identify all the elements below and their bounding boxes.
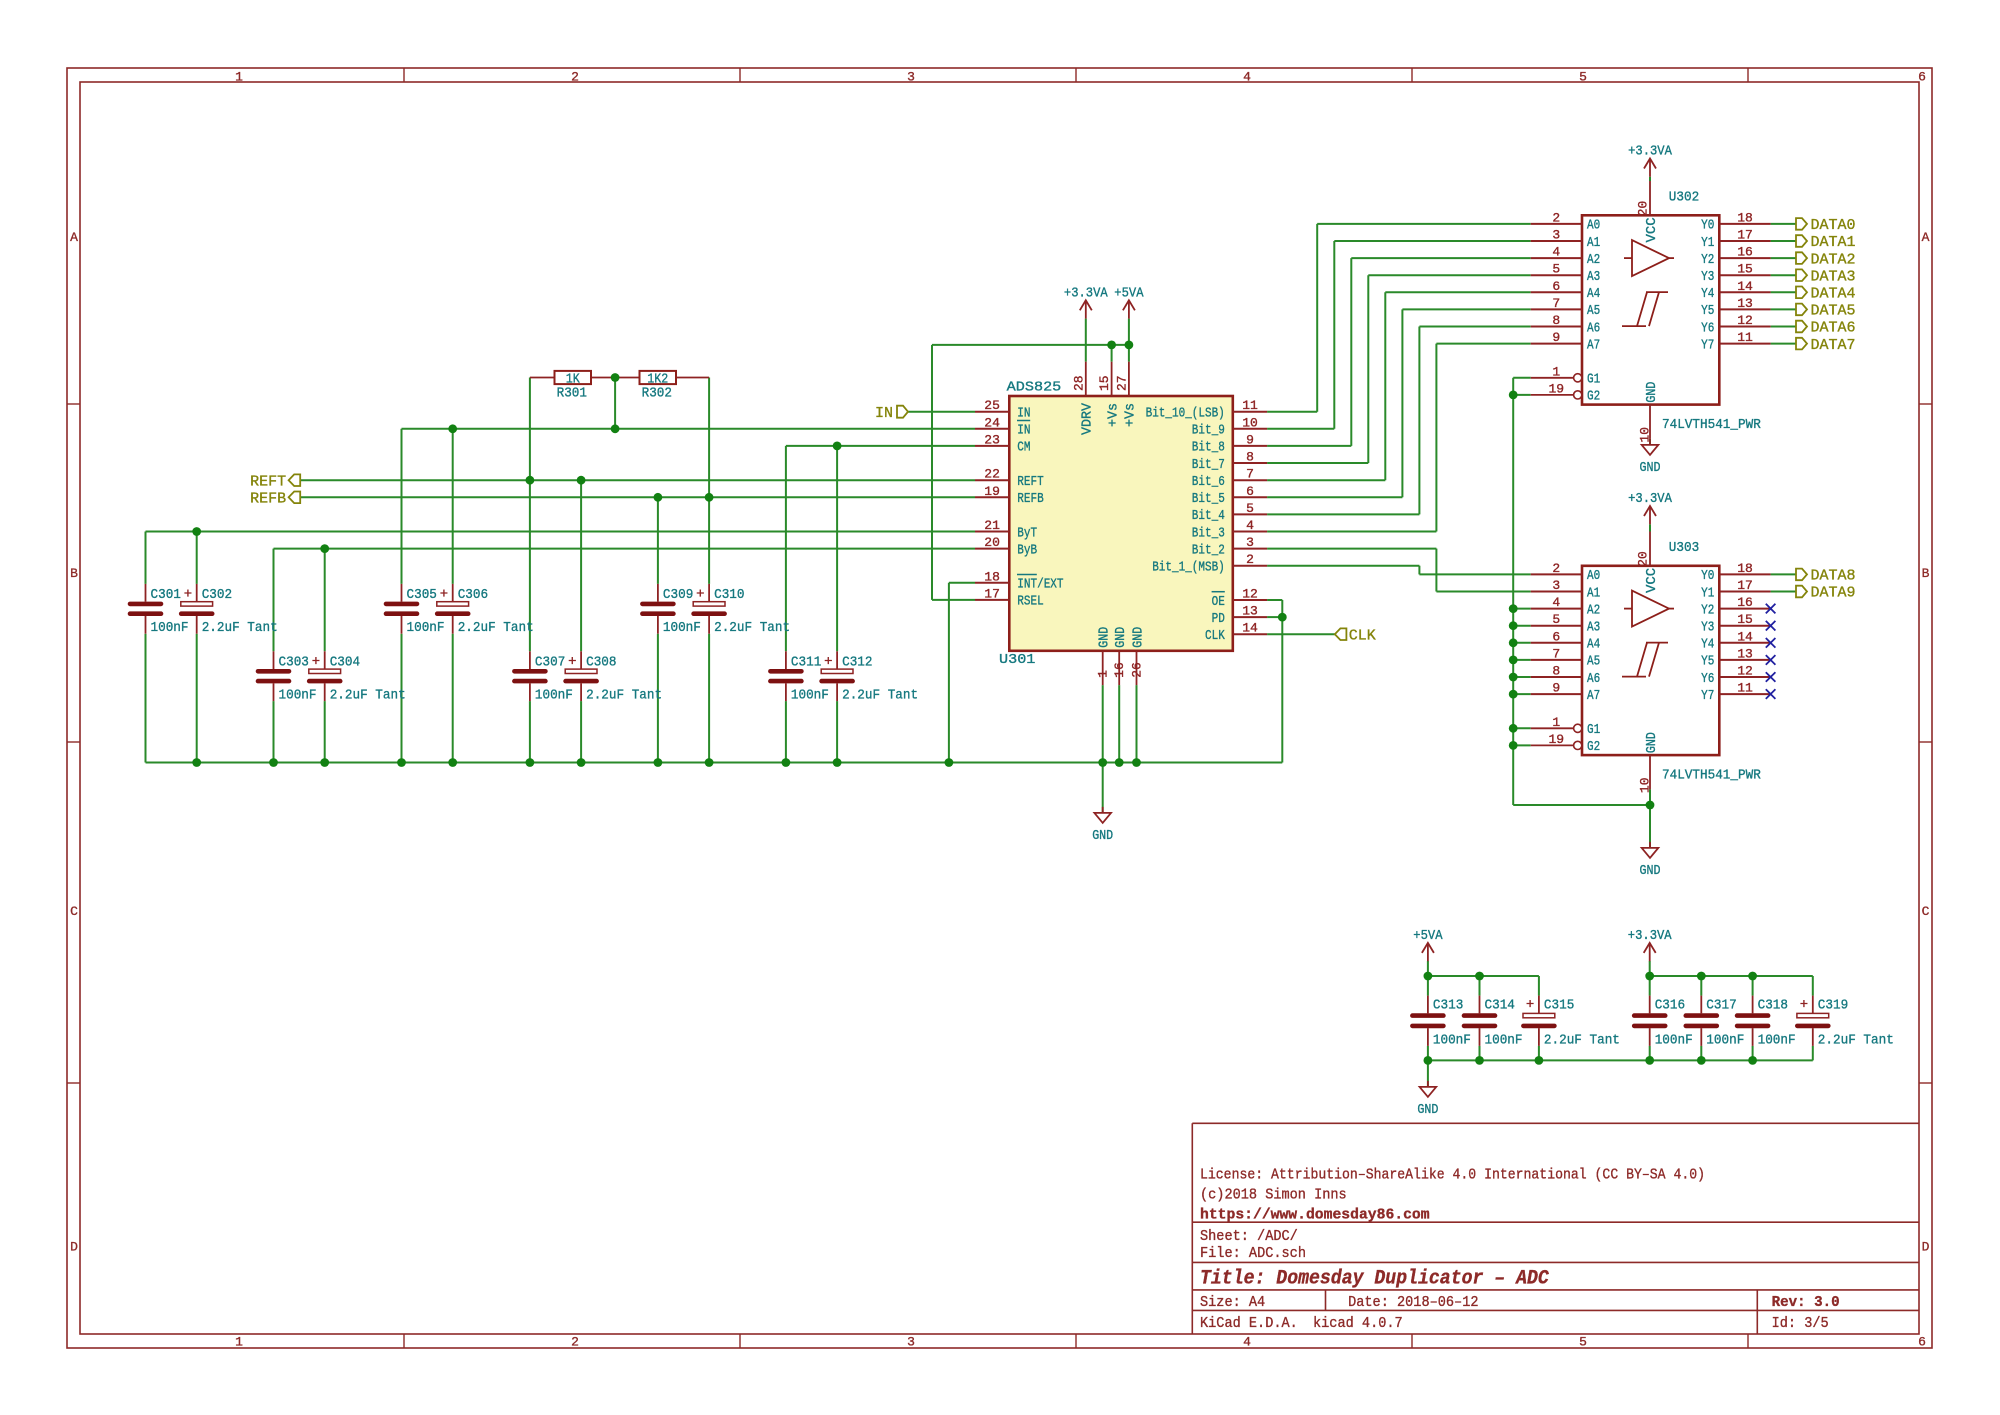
svg-text:GND: GND bbox=[1113, 627, 1129, 648]
svg-text:Y1: Y1 bbox=[1701, 235, 1714, 251]
svg-text:R301: R301 bbox=[557, 385, 587, 401]
svg-text:D: D bbox=[1922, 1240, 1930, 1255]
svg-text:12: 12 bbox=[1242, 587, 1258, 602]
svg-text:C311: C311 bbox=[791, 655, 821, 671]
svg-text:17: 17 bbox=[1737, 578, 1753, 593]
svg-text:18: 18 bbox=[1737, 210, 1753, 225]
svg-text:3: 3 bbox=[907, 1335, 915, 1350]
svg-text:A6: A6 bbox=[1587, 671, 1600, 687]
svg-text:3: 3 bbox=[907, 70, 915, 85]
svg-text:C305: C305 bbox=[407, 587, 437, 603]
svg-text:7: 7 bbox=[1552, 646, 1560, 661]
svg-text:2.2uF Tant: 2.2uF Tant bbox=[1544, 1033, 1620, 1049]
svg-text:ByT: ByT bbox=[1017, 525, 1037, 541]
svg-text:C301: C301 bbox=[151, 587, 181, 603]
svg-text:Date: 2018–06–12: Date: 2018–06–12 bbox=[1348, 1294, 1478, 1311]
svg-text:Sheet: /ADC/: Sheet: /ADC/ bbox=[1200, 1228, 1298, 1245]
svg-text:28: 28 bbox=[1071, 375, 1086, 391]
svg-text:+Vs: +Vs bbox=[1123, 403, 1139, 427]
svg-text:6: 6 bbox=[1552, 279, 1560, 294]
svg-text:GND: GND bbox=[1092, 828, 1113, 844]
svg-text:10: 10 bbox=[1242, 415, 1258, 430]
svg-text:A7: A7 bbox=[1587, 688, 1600, 704]
svg-text:4: 4 bbox=[1243, 1335, 1251, 1350]
svg-text:6: 6 bbox=[1918, 1335, 1926, 1350]
svg-text:1: 1 bbox=[235, 1335, 243, 1350]
svg-text:Y1: Y1 bbox=[1701, 585, 1714, 601]
svg-text:C312: C312 bbox=[842, 655, 872, 671]
svg-text:Bit_7: Bit_7 bbox=[1192, 457, 1225, 473]
svg-text:Y6: Y6 bbox=[1701, 671, 1714, 687]
svg-text:+: + bbox=[1526, 997, 1534, 1013]
svg-text:C319: C319 bbox=[1818, 998, 1848, 1014]
svg-text:C309: C309 bbox=[663, 587, 693, 603]
svg-text:REFT: REFT bbox=[1017, 474, 1043, 490]
svg-text:100nF: 100nF bbox=[279, 688, 317, 704]
svg-text:A1: A1 bbox=[1587, 585, 1600, 601]
svg-text:100nF: 100nF bbox=[1655, 1033, 1693, 1049]
svg-text:14: 14 bbox=[1737, 279, 1753, 294]
svg-text:+3.3VA: +3.3VA bbox=[1628, 144, 1672, 160]
svg-text:100nF: 100nF bbox=[1433, 1033, 1471, 1049]
svg-text:4: 4 bbox=[1552, 595, 1560, 610]
svg-text:C308: C308 bbox=[586, 655, 616, 671]
svg-text:4: 4 bbox=[1243, 70, 1251, 85]
svg-text:5: 5 bbox=[1246, 501, 1254, 516]
svg-text:REFB: REFB bbox=[1017, 491, 1043, 507]
svg-text:100nF: 100nF bbox=[1485, 1033, 1523, 1049]
svg-text:DATA8: DATA8 bbox=[1811, 568, 1856, 585]
svg-text:Bit_3: Bit_3 bbox=[1192, 525, 1225, 541]
svg-text:Y3: Y3 bbox=[1701, 269, 1714, 285]
svg-text:3: 3 bbox=[1552, 578, 1560, 593]
svg-text:A4: A4 bbox=[1587, 286, 1600, 302]
svg-text:+: + bbox=[1800, 997, 1808, 1013]
svg-text:5: 5 bbox=[1552, 262, 1560, 277]
svg-text:A6: A6 bbox=[1587, 320, 1600, 336]
svg-text:INT/EXT: INT/EXT bbox=[1017, 577, 1063, 593]
svg-text:Y6: Y6 bbox=[1701, 320, 1714, 336]
svg-text:11: 11 bbox=[1737, 330, 1753, 345]
svg-text:2.2uF Tant: 2.2uF Tant bbox=[330, 688, 406, 704]
svg-text:DATA3: DATA3 bbox=[1811, 268, 1856, 285]
svg-text:G2: G2 bbox=[1587, 739, 1600, 755]
svg-text:GND: GND bbox=[1644, 382, 1660, 403]
svg-text:VDRV: VDRV bbox=[1080, 402, 1096, 435]
svg-text:U302: U302 bbox=[1669, 190, 1699, 206]
svg-text:2.2uF Tant: 2.2uF Tant bbox=[842, 688, 918, 704]
svg-text:100nF: 100nF bbox=[663, 620, 701, 636]
svg-text:R302: R302 bbox=[642, 385, 672, 401]
svg-text:B: B bbox=[1922, 566, 1930, 581]
svg-text:U303: U303 bbox=[1669, 540, 1699, 556]
svg-text:A2: A2 bbox=[1587, 252, 1600, 268]
svg-text:A3: A3 bbox=[1587, 269, 1600, 285]
svg-text:Bit_4: Bit_4 bbox=[1192, 508, 1225, 524]
svg-text:A0: A0 bbox=[1587, 218, 1600, 234]
svg-text:+: + bbox=[824, 654, 832, 670]
svg-text:14: 14 bbox=[1242, 621, 1258, 636]
svg-text:25: 25 bbox=[984, 398, 1000, 413]
svg-text:17: 17 bbox=[1737, 228, 1753, 243]
svg-text:Bit_9: Bit_9 bbox=[1192, 423, 1225, 439]
svg-text:DATA1: DATA1 bbox=[1811, 234, 1856, 251]
svg-text:C: C bbox=[70, 904, 78, 919]
svg-text:100nF: 100nF bbox=[407, 620, 445, 636]
svg-text:4: 4 bbox=[1552, 245, 1560, 260]
svg-text:https://www.domesday86.com: https://www.domesday86.com bbox=[1200, 1206, 1430, 1223]
svg-text:13: 13 bbox=[1737, 296, 1753, 311]
svg-text:20: 20 bbox=[1636, 551, 1651, 567]
svg-text:+3.3VA: +3.3VA bbox=[1628, 491, 1672, 507]
svg-text:Bit_10_(LSB): Bit_10_(LSB) bbox=[1146, 406, 1225, 422]
svg-text:27: 27 bbox=[1114, 375, 1129, 391]
svg-text:2: 2 bbox=[1246, 552, 1254, 567]
svg-text:12: 12 bbox=[1737, 313, 1753, 328]
svg-text:DATA5: DATA5 bbox=[1811, 303, 1856, 320]
svg-text:Y2: Y2 bbox=[1701, 602, 1714, 618]
svg-text:Y3: Y3 bbox=[1701, 620, 1714, 636]
svg-text:2.2uF Tant: 2.2uF Tant bbox=[202, 620, 278, 636]
svg-text:+5VA: +5VA bbox=[1114, 286, 1144, 302]
svg-text:GND: GND bbox=[1640, 460, 1661, 476]
svg-text:DATA9: DATA9 bbox=[1811, 585, 1856, 602]
svg-text:C318: C318 bbox=[1758, 998, 1788, 1014]
svg-text:A7: A7 bbox=[1587, 337, 1600, 353]
svg-text:16: 16 bbox=[1112, 662, 1127, 678]
svg-text:C307: C307 bbox=[535, 655, 565, 671]
svg-text:A5: A5 bbox=[1587, 654, 1600, 670]
svg-text:kicad 4.0.7: kicad 4.0.7 bbox=[1313, 1315, 1403, 1332]
svg-text:G2: G2 bbox=[1587, 389, 1600, 405]
svg-text:5: 5 bbox=[1552, 612, 1560, 627]
svg-text:100nF: 100nF bbox=[791, 688, 829, 704]
svg-text:100nF: 100nF bbox=[1706, 1033, 1744, 1049]
svg-text:VCC: VCC bbox=[1644, 568, 1660, 593]
svg-text:GND: GND bbox=[1417, 1102, 1438, 1118]
svg-text:A: A bbox=[1922, 230, 1930, 245]
svg-text:KiCad E.D.A.: KiCad E.D.A. bbox=[1200, 1315, 1298, 1332]
svg-text:Y4: Y4 bbox=[1701, 637, 1714, 653]
svg-text:A1: A1 bbox=[1587, 235, 1600, 251]
svg-text:GND: GND bbox=[1644, 732, 1660, 753]
svg-text:C310: C310 bbox=[714, 587, 744, 603]
svg-text:U301: U301 bbox=[999, 652, 1035, 668]
svg-text:DATA6: DATA6 bbox=[1811, 320, 1856, 337]
svg-text:2.2uF Tant: 2.2uF Tant bbox=[714, 620, 790, 636]
svg-text:RSEL: RSEL bbox=[1017, 594, 1043, 610]
svg-text:5: 5 bbox=[1579, 1335, 1587, 1350]
svg-text:Y0: Y0 bbox=[1701, 218, 1714, 234]
svg-text:C317: C317 bbox=[1706, 998, 1736, 1014]
svg-text:3: 3 bbox=[1246, 535, 1254, 550]
svg-text:100nF: 100nF bbox=[535, 688, 573, 704]
svg-text:Bit_8: Bit_8 bbox=[1192, 440, 1225, 456]
svg-text:100nF: 100nF bbox=[1758, 1033, 1796, 1049]
svg-text:Y4: Y4 bbox=[1701, 286, 1714, 302]
svg-text:+3.3VA: +3.3VA bbox=[1064, 286, 1108, 302]
svg-text:C315: C315 bbox=[1544, 998, 1574, 1014]
svg-text:DATA0: DATA0 bbox=[1811, 217, 1856, 234]
svg-text:7: 7 bbox=[1552, 296, 1560, 311]
svg-text:4: 4 bbox=[1246, 518, 1254, 533]
svg-text:G1: G1 bbox=[1587, 722, 1600, 738]
svg-text:+Vs: +Vs bbox=[1105, 403, 1121, 427]
svg-text:Bit_6: Bit_6 bbox=[1192, 474, 1225, 490]
svg-text:9: 9 bbox=[1552, 330, 1560, 345]
svg-text:15: 15 bbox=[1737, 262, 1753, 277]
svg-text:6: 6 bbox=[1552, 629, 1560, 644]
svg-text:24: 24 bbox=[984, 415, 1000, 430]
svg-text:IN: IN bbox=[1017, 423, 1030, 439]
svg-text:19: 19 bbox=[1548, 732, 1564, 747]
svg-text:74LVTH541_PWR: 74LVTH541_PWR bbox=[1662, 768, 1761, 784]
svg-text:3: 3 bbox=[1552, 228, 1560, 243]
svg-text:+: + bbox=[696, 587, 704, 603]
svg-text:CLK: CLK bbox=[1205, 628, 1225, 644]
svg-text:9: 9 bbox=[1246, 432, 1254, 447]
svg-text:8: 8 bbox=[1552, 664, 1560, 679]
svg-text:Bit_1_(MSB): Bit_1_(MSB) bbox=[1152, 560, 1225, 576]
svg-text:8: 8 bbox=[1246, 450, 1254, 465]
svg-text:(c)2018 Simon Inns: (c)2018 Simon Inns bbox=[1200, 1187, 1347, 1204]
svg-text:13: 13 bbox=[1737, 646, 1753, 661]
svg-text:B: B bbox=[70, 566, 78, 581]
svg-text:License: Attribution–ShareAlik: License: Attribution–ShareAlike 4.0 Inte… bbox=[1200, 1166, 1705, 1183]
svg-text:6: 6 bbox=[1918, 70, 1926, 85]
svg-text:5: 5 bbox=[1579, 70, 1587, 85]
svg-text:74LVTH541_PWR: 74LVTH541_PWR bbox=[1662, 417, 1761, 433]
svg-text:A: A bbox=[70, 230, 78, 245]
svg-text:Y7: Y7 bbox=[1701, 337, 1714, 353]
svg-text:2.2uF Tant: 2.2uF Tant bbox=[458, 620, 534, 636]
svg-text:Bit_5: Bit_5 bbox=[1192, 491, 1225, 507]
svg-text:19: 19 bbox=[1548, 381, 1564, 396]
svg-text:Bit_2: Bit_2 bbox=[1192, 542, 1225, 558]
svg-text:PD: PD bbox=[1212, 611, 1225, 627]
svg-text:+: + bbox=[568, 654, 576, 670]
svg-text:1: 1 bbox=[1552, 715, 1560, 730]
svg-text:15: 15 bbox=[1737, 612, 1753, 627]
svg-text:Y5: Y5 bbox=[1701, 654, 1714, 670]
svg-text:6: 6 bbox=[1246, 484, 1254, 499]
svg-text:16: 16 bbox=[1737, 245, 1753, 260]
svg-text:Rev: 3.0: Rev: 3.0 bbox=[1772, 1294, 1840, 1311]
svg-text:10: 10 bbox=[1638, 777, 1653, 793]
svg-text:1: 1 bbox=[1552, 364, 1560, 379]
svg-text:13: 13 bbox=[1242, 604, 1258, 619]
svg-text:2: 2 bbox=[1552, 210, 1560, 225]
svg-text:DATA7: DATA7 bbox=[1811, 337, 1856, 354]
svg-text:CM: CM bbox=[1017, 440, 1030, 456]
svg-text:20: 20 bbox=[984, 535, 1000, 550]
svg-text:D: D bbox=[70, 1240, 78, 1255]
svg-text:Id: 3/5: Id: 3/5 bbox=[1772, 1315, 1829, 1332]
svg-text:100nF: 100nF bbox=[151, 620, 189, 636]
svg-text:9: 9 bbox=[1552, 681, 1560, 696]
svg-text:C314: C314 bbox=[1485, 998, 1515, 1014]
svg-text:Y5: Y5 bbox=[1701, 303, 1714, 319]
svg-text:7: 7 bbox=[1246, 467, 1254, 482]
svg-text:2: 2 bbox=[1552, 561, 1560, 576]
svg-text:A3: A3 bbox=[1587, 620, 1600, 636]
svg-text:C313: C313 bbox=[1433, 998, 1463, 1014]
svg-text:C316: C316 bbox=[1655, 998, 1685, 1014]
svg-text:16: 16 bbox=[1737, 595, 1753, 610]
svg-text:14: 14 bbox=[1737, 629, 1753, 644]
svg-text:+: + bbox=[184, 587, 192, 603]
svg-text:A4: A4 bbox=[1587, 637, 1600, 653]
svg-text:ByB: ByB bbox=[1017, 542, 1037, 558]
svg-text:1: 1 bbox=[235, 70, 243, 85]
svg-text:C303: C303 bbox=[279, 655, 309, 671]
svg-text:+: + bbox=[312, 654, 320, 670]
svg-text:20: 20 bbox=[1636, 201, 1651, 217]
svg-text:2.2uF Tant: 2.2uF Tant bbox=[586, 688, 662, 704]
svg-text:+5VA: +5VA bbox=[1413, 928, 1443, 944]
svg-text:GND: GND bbox=[1097, 627, 1113, 648]
svg-text:REFB: REFB bbox=[250, 491, 286, 508]
svg-text:17: 17 bbox=[984, 586, 1000, 601]
svg-text:C304: C304 bbox=[330, 655, 360, 671]
svg-text:Size: A4: Size: A4 bbox=[1200, 1294, 1265, 1311]
svg-text:A0: A0 bbox=[1587, 568, 1600, 584]
svg-text:+3.3VA: +3.3VA bbox=[1628, 928, 1672, 944]
svg-text:VCC: VCC bbox=[1644, 217, 1660, 242]
svg-text:22: 22 bbox=[984, 467, 1000, 482]
svg-text:ADS825: ADS825 bbox=[1007, 380, 1062, 396]
svg-text:C306: C306 bbox=[458, 587, 488, 603]
svg-text:CLK: CLK bbox=[1349, 627, 1376, 644]
svg-text:A5: A5 bbox=[1587, 303, 1600, 319]
svg-text:26: 26 bbox=[1130, 662, 1145, 678]
svg-text:2.2uF Tant: 2.2uF Tant bbox=[1818, 1033, 1894, 1049]
svg-text:15: 15 bbox=[1097, 375, 1112, 391]
svg-text:File: ADC.sch: File: ADC.sch bbox=[1200, 1245, 1306, 1262]
svg-text:8: 8 bbox=[1552, 313, 1560, 328]
svg-text:DATA4: DATA4 bbox=[1811, 286, 1856, 303]
svg-text:11: 11 bbox=[1242, 398, 1258, 413]
svg-text:11: 11 bbox=[1737, 681, 1753, 696]
svg-text:18: 18 bbox=[1737, 561, 1753, 576]
svg-text:21: 21 bbox=[984, 518, 1000, 533]
svg-text:REFT: REFT bbox=[250, 473, 286, 490]
svg-text:GND: GND bbox=[1130, 627, 1146, 648]
svg-text:Title: Domesday Duplicator – A: Title: Domesday Duplicator – ADC bbox=[1200, 1267, 1550, 1290]
svg-text:23: 23 bbox=[984, 432, 1000, 447]
svg-text:A2: A2 bbox=[1587, 602, 1600, 618]
svg-text:18: 18 bbox=[984, 569, 1000, 584]
svg-text:G1: G1 bbox=[1587, 372, 1600, 388]
svg-text:IN: IN bbox=[875, 405, 893, 422]
svg-text:Y7: Y7 bbox=[1701, 688, 1714, 704]
svg-text:Y2: Y2 bbox=[1701, 252, 1714, 268]
svg-text:2: 2 bbox=[571, 70, 579, 85]
svg-text:19: 19 bbox=[984, 484, 1000, 499]
svg-text:+: + bbox=[440, 587, 448, 603]
svg-text:C302: C302 bbox=[202, 587, 232, 603]
svg-text:1: 1 bbox=[1096, 670, 1111, 678]
svg-text:2: 2 bbox=[571, 1335, 579, 1350]
svg-text:12: 12 bbox=[1737, 664, 1753, 679]
svg-text:IN: IN bbox=[1017, 406, 1030, 422]
svg-text:OE: OE bbox=[1212, 594, 1225, 610]
svg-text:Y0: Y0 bbox=[1701, 568, 1714, 584]
svg-text:GND: GND bbox=[1640, 863, 1661, 879]
svg-text:C: C bbox=[1922, 904, 1930, 919]
svg-text:DATA2: DATA2 bbox=[1811, 251, 1856, 268]
